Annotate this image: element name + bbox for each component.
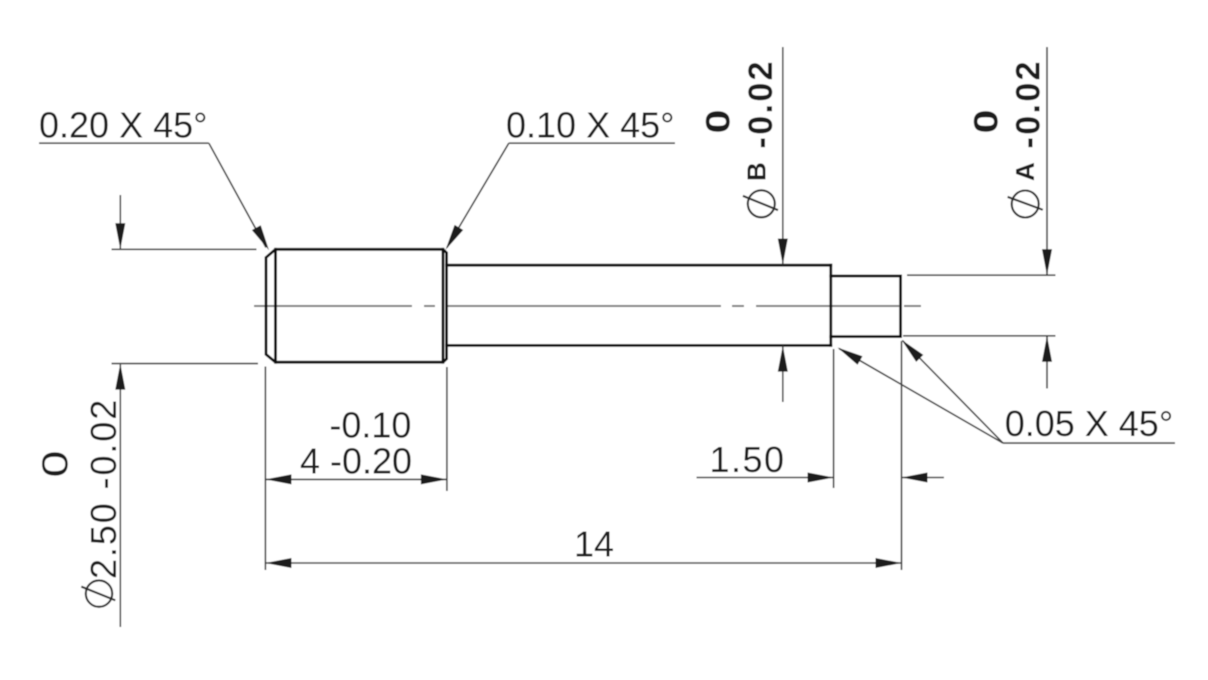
svg-text:4 -0.20: 4 -0.20 (300, 441, 412, 482)
svg-text:0: 0 (967, 110, 1005, 134)
svg-text:2.50 -0.02: 2.50 -0.02 (83, 398, 124, 579)
svg-text:14: 14 (574, 524, 614, 565)
svg-text:0.05 X 45°: 0.05 X 45° (1005, 403, 1174, 444)
svg-text:1.50: 1.50 (709, 439, 785, 480)
svg-text:-0.10: -0.10 (329, 404, 411, 445)
svg-text:0: 0 (700, 110, 738, 134)
svg-text:0.10 X 45°: 0.10 X 45° (506, 105, 675, 146)
svg-text:A: A (1010, 162, 1040, 181)
svg-text:-0.02: -0.02 (742, 59, 780, 149)
svg-text:B: B (742, 162, 772, 181)
svg-text:0.20 X 45°: 0.20 X 45° (39, 105, 208, 146)
svg-text:0: 0 (35, 451, 76, 478)
svg-text:-0.02: -0.02 (1010, 59, 1048, 149)
